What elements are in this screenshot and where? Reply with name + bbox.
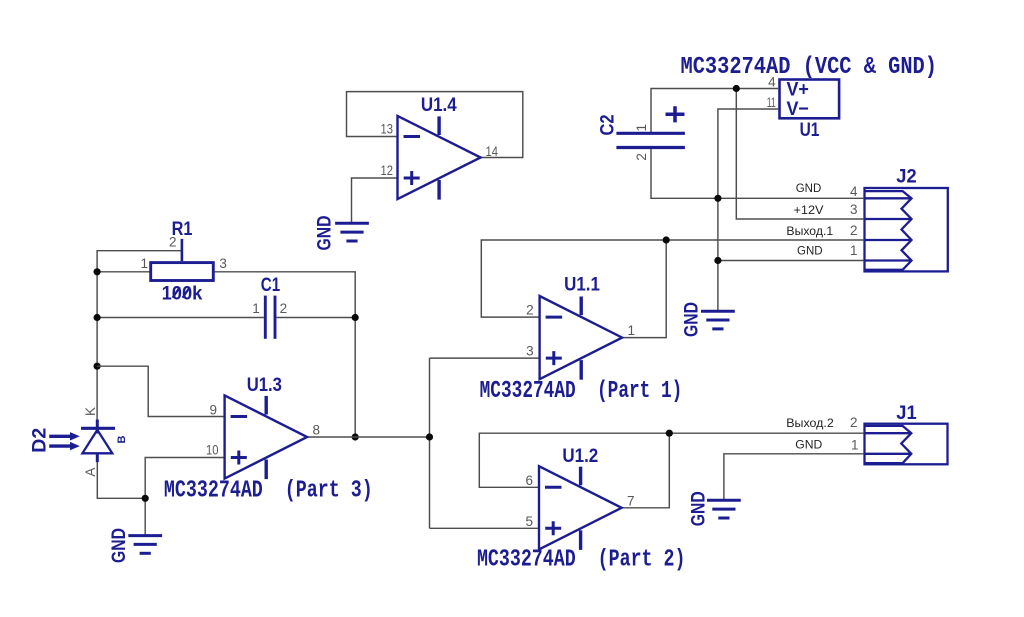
wire U1.2 output to node bbox=[622, 433, 670, 508]
node dot U1.2 output net bbox=[666, 430, 673, 437]
svg-text:2: 2 bbox=[850, 415, 858, 430]
connector J2 bbox=[865, 188, 948, 271]
wire C1 row bbox=[97, 317, 355, 319]
wire +12V drop to J2 pin3 bbox=[736, 89, 863, 220]
wire U1.1 pin3 bbox=[430, 357, 540, 359]
wire to J1 pin2 bbox=[669, 432, 863, 434]
svg-text:5: 5 bbox=[525, 514, 533, 529]
op-amp U1.4 bbox=[398, 116, 481, 200]
ground symbol J1 bbox=[688, 491, 741, 526]
svg-text:1: 1 bbox=[634, 124, 649, 132]
wire U1.4 pin12 to GND bbox=[352, 178, 398, 222]
connector J1 bbox=[865, 424, 948, 465]
svg-text:1: 1 bbox=[252, 301, 260, 316]
ground symbol below D2 bbox=[108, 528, 162, 563]
node dot right rail output row bbox=[352, 433, 359, 440]
wire C2 pin2 to GND row and J2 pin4 bbox=[651, 148, 863, 199]
svg-text:Выход.2: Выход.2 bbox=[786, 418, 834, 430]
svg-text:14: 14 bbox=[486, 144, 499, 159]
op-amp U1.1 bbox=[540, 296, 623, 380]
svg-text:MC33274AD (Part 3): MC33274AD (Part 3) bbox=[164, 478, 373, 505]
svg-text:MC33274AD (Part 1): MC33274AD (Part 1) bbox=[480, 378, 683, 405]
wire U1.4 feedback loop pin13 to pin14 bbox=[347, 92, 523, 158]
svg-text:GND: GND bbox=[797, 246, 823, 258]
capacitor C1 bbox=[265, 296, 275, 339]
svg-text:3: 3 bbox=[219, 256, 227, 271]
wire R1 pin3 to right rail bbox=[215, 272, 356, 437]
svg-text:GND: GND bbox=[108, 528, 130, 563]
wire U1.1 output to node bbox=[622, 240, 666, 338]
svg-text:MC33274AD (Part 2): MC33274AD (Part 2) bbox=[477, 547, 686, 574]
svg-text:K: K bbox=[83, 407, 98, 416]
svg-text:GND: GND bbox=[796, 183, 822, 195]
svg-text:7: 7 bbox=[627, 493, 635, 508]
node dot output split bbox=[426, 433, 433, 440]
wire U1.3 output row bbox=[307, 436, 429, 438]
light arrow 2 of D2 bbox=[49, 442, 80, 450]
svg-text:D2: D2 bbox=[29, 428, 51, 453]
value 100k bbox=[162, 283, 203, 305]
node dot V+ junction bbox=[733, 85, 740, 92]
svg-text:GND: GND bbox=[688, 491, 710, 526]
svg-text:10: 10 bbox=[206, 443, 219, 458]
ground symbol for U1.4 bbox=[314, 216, 369, 251]
wire pin10 branch bbox=[145, 458, 224, 499]
svg-text:1: 1 bbox=[850, 243, 858, 258]
svg-text:A: A bbox=[83, 468, 98, 477]
svg-text:2: 2 bbox=[634, 153, 649, 161]
svg-text:U1.4: U1.4 bbox=[421, 94, 457, 116]
wire U1.1 feedback pin2 loop bbox=[481, 240, 666, 317]
svg-text:2: 2 bbox=[169, 235, 177, 250]
svg-text:U1.3: U1.3 bbox=[247, 374, 282, 396]
node dot rail-R1 pin1 bbox=[94, 268, 101, 275]
svg-text:C2: C2 bbox=[597, 114, 619, 135]
op-amp U1.3 bbox=[225, 395, 308, 479]
wire C2 pin1 to V+ node bbox=[651, 89, 736, 134]
node dot U1.1 output net bbox=[663, 236, 670, 243]
wire J1 pin1 GND bbox=[724, 454, 864, 500]
wire V+ node to U1 pin4 bbox=[736, 88, 778, 90]
svg-text:2: 2 bbox=[280, 301, 288, 316]
svg-text:V−: V− bbox=[787, 98, 809, 120]
svg-text:3: 3 bbox=[526, 344, 534, 359]
wire U1 pin11 V- to GND rail bbox=[718, 109, 778, 311]
wire R1 pin2 to left rail bbox=[97, 251, 182, 420]
op-amp U1.2 bbox=[539, 466, 622, 550]
svg-text:2: 2 bbox=[850, 223, 858, 238]
wire J2 pin1 bbox=[718, 260, 864, 262]
svg-text:U1.1: U1.1 bbox=[564, 274, 600, 296]
node dot rail-C1 row bbox=[94, 314, 101, 321]
node dot right rail C1 bbox=[352, 314, 359, 321]
svg-text:MC33274AD (VCC & GND): MC33274AD (VCC & GND) bbox=[681, 54, 938, 81]
svg-text:8: 8 bbox=[313, 423, 321, 438]
svg-text:1: 1 bbox=[628, 323, 636, 338]
photodiode D2 bbox=[81, 420, 115, 463]
svg-text:100k: 100k bbox=[162, 283, 203, 305]
wire GND drop from anode node bbox=[144, 498, 146, 535]
resistor R1 bbox=[151, 239, 214, 281]
svg-text:GND: GND bbox=[795, 440, 822, 452]
svg-text:4: 4 bbox=[768, 75, 776, 90]
svg-text:9: 9 bbox=[209, 403, 217, 418]
svg-text:J2: J2 bbox=[896, 166, 917, 188]
capacitor C2 bbox=[616, 106, 685, 147]
node dot J2 pin1 junction bbox=[714, 257, 721, 264]
svg-text:C1: C1 bbox=[261, 274, 281, 296]
svg-text:GND: GND bbox=[681, 302, 703, 337]
svg-text:B: B bbox=[116, 436, 128, 444]
node dot anode junction bbox=[142, 495, 149, 502]
wire D2 anode down and right bbox=[97, 462, 145, 498]
svg-text:U1: U1 bbox=[800, 119, 820, 141]
svg-text:13: 13 bbox=[381, 122, 394, 137]
power block U1 bbox=[780, 80, 840, 119]
wire split vertical to U1.1 pin3 and U1.2 pin5 bbox=[429, 358, 431, 528]
svg-text:1: 1 bbox=[140, 256, 148, 271]
svg-text:V+: V+ bbox=[787, 78, 809, 100]
ground symbol V- rail bbox=[681, 302, 735, 337]
svg-text:4: 4 bbox=[850, 184, 858, 199]
node dot rail-pin9 branch bbox=[94, 363, 101, 370]
svg-text:2: 2 bbox=[526, 303, 534, 318]
svg-text:11: 11 bbox=[767, 95, 776, 110]
svg-text:3: 3 bbox=[850, 202, 858, 217]
svg-text:6: 6 bbox=[525, 473, 533, 488]
svg-text:+12V: +12V bbox=[794, 205, 824, 217]
wire pin9 branch bbox=[97, 366, 225, 416]
svg-text:Выход.1: Выход.1 bbox=[786, 226, 833, 238]
wire to J2 pin2 bbox=[666, 239, 863, 241]
node dot GND row junction bbox=[714, 195, 721, 202]
svg-text:U1.2: U1.2 bbox=[562, 445, 598, 467]
svg-text:12: 12 bbox=[381, 163, 394, 178]
svg-text:GND: GND bbox=[314, 216, 336, 251]
wire R1 pin1 bbox=[97, 271, 150, 273]
svg-text:J1: J1 bbox=[896, 402, 917, 424]
wire U1.2 feedback pin6 loop bbox=[479, 433, 669, 487]
light arrow 1 of D2 bbox=[49, 432, 80, 440]
svg-text:1: 1 bbox=[851, 438, 859, 453]
wire U1.2 pin5 bbox=[430, 527, 540, 529]
